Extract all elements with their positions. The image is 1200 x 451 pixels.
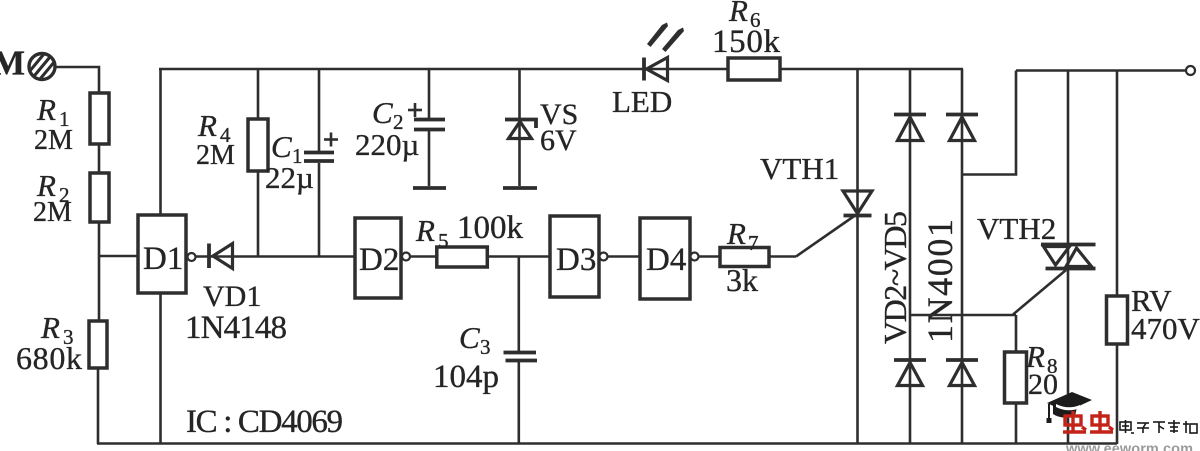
svg-text:2M: 2M [33,197,72,228]
watermark site name glyphs [1120,420,1197,433]
wire R8 bottom [1015,403,1018,444]
diode VD3 [946,115,978,141]
wire step from VD3 to right rail [962,71,1016,175]
D2 output bubble [402,253,410,261]
wire R7 out [769,255,796,258]
thyristor VTH1 [856,69,859,444]
resistor R7 [720,248,769,267]
wire VTH1 gate diagonal [796,216,855,257]
inverter D4 [640,218,690,299]
wire R5 to D3 [487,255,550,258]
inverter D2 [355,218,401,298]
varistor RV [1116,71,1119,297]
wire VTH2 gate diagonal [1013,270,1066,315]
resistor R3 [89,321,107,368]
svg-text:VTH2: VTH2 [977,211,1056,246]
resistor R6 [728,58,780,80]
svg-text:R: R [197,108,217,143]
svg-text:220µ: 220µ [355,127,419,162]
inverter D1 [138,215,186,293]
svg-text:IC : CD4069: IC : CD4069 [186,404,343,440]
watermark graduation cap [1047,392,1093,423]
touch electrode M [22,47,61,87]
svg-text:7: 7 [748,231,759,255]
svg-text:150k: 150k [712,24,781,60]
svg-text:20: 20 [1028,368,1058,401]
resistor R4 [257,69,260,119]
wire D1 bottom power [159,293,162,444]
resistor R1 [90,93,109,144]
wire D3 to D4 [608,255,640,258]
resistor R5 [437,247,488,267]
LED [644,23,684,81]
svg-text:22µ: 22µ [265,160,314,195]
watermark red chongchong characters [1063,411,1113,432]
right terminal [1186,66,1195,75]
svg-text:2M: 2M [196,140,235,171]
svg-text:6V: 6V [540,124,577,157]
wire R2 to R3 with junction to D1 [98,222,101,321]
triac VTH2 [1041,245,1096,269]
svg-text:1N4148: 1N4148 [185,310,287,346]
wire D1 top power [159,69,162,215]
svg-text:680k: 680k [16,340,82,376]
svg-text:D3: D3 [556,242,596,278]
svg-text:C: C [459,320,480,355]
resistor R8 [1005,352,1027,403]
svg-text:5: 5 [438,229,449,253]
svg-text:www.eeworm.com: www.eeworm.com [1065,442,1193,451]
svg-text:100k: 100k [457,210,524,246]
svg-text:D1: D1 [143,241,183,277]
wire R8 top [1015,315,1018,352]
svg-text:104p: 104p [433,359,499,395]
wire bridge mid to R8 [910,314,1016,317]
svg-text:3: 3 [480,335,491,359]
svg-text:C: C [271,129,292,164]
svg-text:VD1: VD1 [203,280,261,313]
svg-text:R: R [726,216,746,251]
svg-text:3k: 3k [726,262,758,298]
bridge column B top wire [909,69,912,444]
diode VD5 [946,360,978,386]
capacitor C3 [504,257,538,444]
wire R3 to bottom rail [97,368,100,444]
svg-text:2M: 2M [34,125,73,156]
bridge column C top wire [961,69,964,444]
svg-text:R: R [36,92,56,127]
wire M to left column [55,67,99,94]
diode VD1 [209,244,233,269]
capacitor C2 [408,69,446,188]
svg-text:VD2~VD5: VD2~VD5 [877,211,913,344]
wire junction to D1 input [99,255,138,258]
top rail right segment [1016,69,1186,72]
top rail left segment [159,68,963,71]
wire D1 to VD1 [196,255,355,258]
wire D4 to R7 [699,255,720,258]
capacitor C1 [304,69,338,256]
svg-text:D4: D4 [646,242,686,278]
diode VD4 [894,360,926,386]
svg-text:470V: 470V [1131,311,1200,346]
D1 output bubble [188,253,196,261]
svg-text:VTH1: VTH1 [760,151,839,186]
D4 output bubble [691,253,699,261]
svg-text:D2: D2 [359,242,399,278]
zener VS [503,69,537,188]
wire VTH2 top [1067,71,1070,445]
resistor R2 [90,173,109,222]
diode VD2 [894,115,926,141]
inverter D3 [550,216,599,297]
bottom rail [97,442,1117,445]
svg-text:R: R [415,213,435,248]
svg-text:C: C [372,95,393,130]
wire D2 to R5 [410,255,436,258]
svg-text:LED: LED [612,84,672,119]
D3 output bubble [600,253,608,261]
wire R1-R2 [98,144,101,173]
svg-text:M: M [0,44,25,83]
